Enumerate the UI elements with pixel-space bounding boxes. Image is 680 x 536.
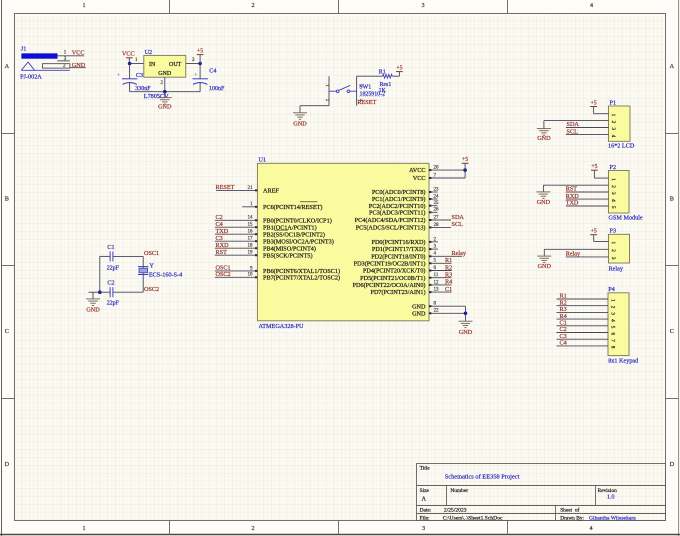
P4 pin 2 wire net R2 [557, 299, 609, 306]
svg-text:SDA: SDA [452, 214, 465, 221]
svg-text:8x1 Keypad: 8x1 Keypad [608, 357, 639, 364]
svg-text:+5: +5 [591, 100, 597, 106]
svg-text:P1: P1 [610, 99, 617, 106]
wire VCC pin up to AVCC node [464, 170, 466, 178]
U1 pin 5 (PD3 net R1) [354, 257, 453, 267]
svg-text:J1: J1 [21, 46, 27, 53]
power port +5 regulator [197, 54, 204, 56]
svg-text:3: 3 [610, 192, 616, 195]
U1 pin 11 (PD5 net R3) [360, 272, 452, 282]
svg-text:AVCC: AVCC [409, 167, 425, 174]
U1 pin 6 (PD4 net R2) [363, 264, 452, 274]
U1 pin 24 (PC1) [372, 194, 439, 203]
capacitor C3 [117, 73, 137, 85]
U1 pin 7 (VCC) [413, 173, 465, 182]
svg-text:A: A [5, 63, 10, 70]
P3 pin 3 wire Relay [566, 256, 609, 258]
U1 pin 9 (PB6) [215, 265, 340, 275]
svg-text:GSM Module: GSM Module [609, 215, 643, 222]
U1 pin 28 (PC5 net SCL) [356, 221, 463, 231]
svg-text:PJ-002A: PJ-002A [20, 73, 42, 80]
svg-text:PB5(SCK/PCINT5): PB5(SCK/PCINT5) [263, 252, 313, 259]
svg-text:17: 17 [248, 237, 254, 242]
U1 pin 15 (PB1) [215, 221, 317, 231]
svg-text:GND: GND [412, 303, 426, 310]
svg-text:16*2 LCD: 16*2 LCD [608, 143, 635, 150]
junction AVCC node [463, 168, 467, 172]
svg-text:VCC: VCC [72, 50, 85, 57]
svg-text:Relay: Relay [609, 266, 624, 273]
wire VCC to U2 IN [130, 63, 144, 65]
svg-text:B: B [670, 196, 674, 203]
P2 pin 4 wire RXD [566, 198, 609, 200]
ground symbol P2 [542, 185, 544, 192]
wire crystal right vertical [142, 256, 144, 292]
svg-text:Drawn By:: Drawn By: [560, 515, 584, 521]
svg-text:Size: Size [420, 488, 430, 494]
svg-text:6: 6 [610, 333, 616, 336]
svg-text:2: 2 [610, 306, 616, 309]
svg-text:PC4(ADC4/SDA/PCINT12): PC4(ADC4/SDA/PCINT12) [355, 217, 426, 224]
zone labels bottom [82, 525, 592, 532]
svg-text:PD6(PCINT22/OC0A/AIN0): PD6(PCINT22/OC0A/AIN0) [353, 282, 426, 289]
P1 pin 3 wire SDA [566, 127, 609, 129]
wire crystal left vertical [99, 256, 101, 292]
junction VCC node [128, 62, 132, 66]
P2 pin 1 wire [594, 177, 608, 179]
P4 pin 3 wire net R3 [557, 306, 609, 313]
svg-text:1: 1 [610, 242, 616, 245]
zone divider top [169, 0, 171, 14]
zone labels top [82, 2, 593, 9]
svg-text:16: 16 [248, 230, 254, 235]
P2 pin 5 wire TXD [566, 205, 609, 207]
capacitor C4 [193, 72, 208, 84]
P3 pin 2 wire [544, 248, 608, 250]
svg-text:4: 4 [590, 2, 593, 9]
svg-text:C3: C3 [216, 235, 223, 242]
svg-text:4: 4 [610, 199, 616, 202]
IC U1 body [257, 163, 429, 320]
svg-text:1K: 1K [379, 88, 387, 94]
connector J1 sleeve contact [21, 62, 34, 70]
U2 GND pin wire [164, 77, 166, 92]
svg-text:C: C [5, 328, 9, 335]
P4 pin 7 wire net C3 [557, 333, 609, 340]
connector P3 body [609, 234, 630, 263]
svg-text:Schematics of EE358 Project: Schematics of EE358 Project [445, 474, 520, 481]
junction GND node U1 [464, 312, 468, 316]
zone divider right [666, 133, 679, 135]
U1 pin name overline RESET [300, 201, 318, 203]
P1 pin numbers [610, 114, 616, 138]
svg-text:1.0: 1.0 [607, 494, 615, 500]
svg-text:C2: C2 [107, 279, 114, 286]
U1 pin 17 (PB3) [215, 235, 334, 245]
svg-text:28: 28 [434, 223, 440, 228]
ground symbol crystal [92, 292, 94, 299]
svg-text:GND: GND [293, 121, 307, 128]
svg-text:1: 1 [610, 114, 616, 117]
ground rail wire [130, 91, 201, 93]
svg-text:C4: C4 [560, 340, 567, 347]
junction ground rail [163, 90, 167, 94]
svg-text:PD2(PCINT18/INT0): PD2(PCINT18/INT0) [371, 253, 425, 260]
U1 pin 14 (PB0) [215, 214, 332, 224]
svg-text:RXD: RXD [216, 242, 230, 249]
ground symbol regulator [164, 92, 166, 98]
svg-text:+5: +5 [591, 164, 597, 170]
svg-text:PB1(OC1A/PCINT1): PB1(OC1A/PCINT1) [263, 224, 317, 231]
svg-text:22pF: 22pF [107, 300, 120, 306]
svg-text:2: 2 [610, 185, 616, 188]
svg-text:2: 2 [610, 121, 616, 124]
svg-text:+5: +5 [591, 229, 597, 235]
svg-text:PD3(PCINT19/OC2B/INT1): PD3(PCINT19/OC2B/INT1) [354, 260, 426, 267]
power port +5 at P2 [591, 169, 598, 171]
wire OSC2 bottom [100, 291, 110, 293]
connector J1 tip contact [22, 54, 58, 59]
wire C4 to rail [199, 83, 201, 92]
svg-text:2: 2 [251, 2, 254, 9]
switch SW1 left lead [328, 76, 330, 105]
svg-text:D: D [5, 461, 10, 468]
svg-text:C: C [670, 328, 674, 335]
svg-text:15: 15 [248, 223, 254, 228]
wire U2 OUT to +5 [186, 63, 200, 65]
svg-text:4: 4 [610, 319, 616, 322]
svg-text:+5: +5 [197, 48, 203, 54]
svg-text:24: 24 [434, 194, 440, 199]
U1 pin 25 (PC2) [369, 201, 439, 210]
outer border left [1, 0, 3, 536]
connector J1 pin 3 [57, 60, 70, 62]
svg-text:26: 26 [434, 208, 440, 213]
svg-text:3: 3 [610, 257, 616, 260]
svg-text:GND: GND [459, 329, 473, 336]
svg-text:PB7(PCINT7/XTAL2/TOSC2): PB7(PCINT7/XTAL2/TOSC2) [263, 274, 340, 281]
svg-text:8: 8 [610, 346, 616, 349]
P3 pin numbers [610, 242, 616, 260]
power port +5 at U1 [462, 162, 469, 164]
ground symbol P1 [543, 121, 545, 129]
svg-text:C:\Users\..\Sheet1.SchDoc: C:\Users\..\Sheet1.SchDoc [443, 515, 503, 521]
U1 pin name underline OC1A [276, 229, 289, 231]
zone divider bottom [169, 521, 171, 535]
svg-text:R1: R1 [379, 69, 386, 75]
svg-text:PD7(PCINT23/AIN1): PD7(PCINT23/AIN1) [371, 289, 426, 296]
svg-text:1: 1 [82, 525, 85, 532]
svg-text:RST: RST [216, 249, 228, 256]
U1 pin 26 (PC3) [369, 208, 439, 217]
switch SW1 contacts [329, 85, 357, 92]
capacitor C2 [110, 287, 113, 297]
svg-text:+5: +5 [396, 65, 402, 71]
svg-text:1: 1 [610, 299, 616, 302]
ground symbol P3 [543, 249, 545, 256]
P4 pin 5 wire net C1 [557, 320, 609, 327]
svg-text:PC5(ADC5/SCL/PCINT13): PC5(ADC5/SCL/PCINT13) [356, 225, 426, 232]
svg-text:RESET: RESET [357, 99, 376, 106]
outer border right [678, 0, 680, 536]
svg-text:2: 2 [610, 249, 616, 252]
U1 pin 12 (PD6 net R4) [353, 279, 453, 289]
svg-text:21: 21 [248, 186, 254, 191]
svg-text:SDA: SDA [567, 121, 580, 128]
svg-text:VCC: VCC [122, 50, 135, 57]
U1 pin 21 (AREF) [216, 184, 280, 194]
U1 pin 2 (PD0) [372, 237, 438, 246]
svg-text:25: 25 [434, 201, 440, 206]
crystal Y1 [138, 267, 148, 275]
zone labels left [5, 63, 10, 468]
U1 pin 8 (GND) [412, 302, 465, 311]
junction crystal gnd [98, 290, 102, 294]
U1 pin 13 (PD7 net C1) [371, 286, 453, 296]
svg-text:SCL: SCL [452, 221, 464, 228]
svg-text:Relay: Relay [452, 250, 467, 257]
P1 pin 2 wire [544, 120, 609, 122]
power port +5 at R1 [396, 71, 403, 73]
svg-text:IN: IN [149, 62, 156, 68]
P1 pin 1 wire [594, 113, 609, 115]
svg-text:3: 3 [421, 2, 424, 9]
svg-text:P3: P3 [610, 228, 617, 235]
svg-text:4: 4 [589, 525, 592, 532]
wire C3 to rail [129, 83, 131, 92]
svg-text:PC0(ADC0/PCINT8): PC0(ADC0/PCINT8) [372, 189, 426, 196]
wire GND pin 8 down [465, 306, 467, 313]
zone labels right [670, 63, 675, 468]
svg-text:AREF: AREF [263, 188, 279, 195]
svg-text:OSC1: OSC1 [144, 250, 159, 257]
svg-text:GND: GND [158, 71, 172, 77]
U1 pin 3 (PD1) [372, 245, 438, 254]
P4 pin 8 wire net C4 [557, 340, 609, 347]
zone divider left [2, 133, 15, 135]
svg-text:RST: RST [566, 186, 578, 193]
svg-text:7: 7 [610, 339, 616, 342]
svg-text:Sheet of: Sheet of [560, 507, 579, 514]
svg-text:PB4(MISO/PCINT4): PB4(MISO/PCINT4) [263, 245, 316, 252]
svg-text:13: 13 [434, 288, 440, 293]
svg-text:TXD: TXD [566, 200, 579, 207]
svg-text:D: D [670, 461, 675, 468]
svg-text:PD5(PCINT21/OC0B/T1): PD5(PCINT21/OC0B/T1) [360, 275, 425, 282]
svg-text:OUT: OUT [169, 62, 182, 68]
svg-text:Title: Title [420, 466, 431, 472]
svg-text:4: 4 [610, 135, 616, 138]
U1 pin 4 (PD2 net Relay) [371, 250, 467, 260]
U1 pin 16 (PB2) [215, 228, 325, 238]
svg-text:GND: GND [158, 103, 172, 110]
U1 pin 27 (PC4 net SDA) [355, 214, 465, 224]
svg-text:3: 3 [610, 128, 616, 131]
svg-text:22: 22 [434, 309, 440, 314]
svg-text:GND: GND [412, 310, 426, 317]
svg-text:Gihantha Wijesekara: Gihantha Wijesekara [589, 515, 636, 521]
svg-text:27: 27 [434, 215, 440, 220]
title block frame [417, 464, 666, 521]
svg-text:23: 23 [434, 187, 440, 192]
U1 pin 10 (PB7) [215, 271, 340, 281]
svg-text:2/25/2023: 2/25/2023 [444, 508, 467, 514]
ground symbol at SW1 [299, 106, 301, 113]
wire OSC1 top [100, 255, 110, 257]
P1 pin 4 wire SCL [566, 134, 609, 136]
wire switch to resistor [357, 75, 383, 77]
svg-text:GND: GND [72, 62, 86, 69]
capacitor C1 [110, 251, 113, 261]
svg-text:10: 10 [248, 273, 254, 278]
svg-text:PB2(SS/OC1B/PCINT2): PB2(SS/OC1B/PCINT2) [263, 231, 325, 238]
svg-text:PC6(PCINT14/RESET): PC6(PCINT14/RESET) [263, 204, 322, 211]
svg-text:14: 14 [248, 216, 254, 221]
svg-text:Revision: Revision [598, 488, 617, 494]
svg-text:SCL: SCL [567, 128, 579, 135]
svg-text:GND: GND [537, 199, 551, 206]
svg-text:TXD: TXD [216, 228, 229, 235]
wire switch to ground [300, 105, 329, 107]
resistor R1 [383, 74, 393, 78]
svg-text:U1: U1 [259, 157, 267, 164]
svg-text:5: 5 [610, 206, 616, 209]
P4 pin 1 wire net R1 [557, 293, 609, 300]
svg-text:5: 5 [610, 326, 616, 329]
svg-text:Number: Number [450, 488, 468, 494]
svg-text:OSC2: OSC2 [144, 286, 159, 293]
P3 pin 1 wire [594, 241, 609, 243]
voltage regulator U2 body [144, 55, 186, 77]
svg-text:PD4(PCINT20/XCK/T0): PD4(PCINT20/XCK/T0) [363, 268, 426, 275]
svg-text:P4: P4 [608, 286, 615, 293]
svg-text:C3: C3 [136, 72, 143, 79]
connector P4 body [608, 293, 629, 356]
svg-text:11: 11 [434, 273, 439, 278]
U1 pin 19 (PB5) [215, 249, 313, 259]
svg-text:File:: File: [420, 515, 430, 521]
switch SW1 pin numbers [325, 84, 364, 102]
svg-text:VCC: VCC [413, 175, 426, 182]
svg-text:2: 2 [251, 525, 254, 532]
svg-text:19: 19 [248, 251, 254, 256]
svg-text:R2: R2 [445, 264, 452, 271]
U1 pin 18 (PB4) [215, 242, 316, 252]
U1 pin 23 (PC0) [372, 187, 439, 196]
svg-text:R4: R4 [445, 279, 452, 286]
title block labels [420, 466, 617, 522]
svg-text:GND: GND [538, 263, 552, 270]
svg-text:PD0(PCINT16/RXD): PD0(PCINT16/RXD) [372, 239, 426, 246]
outer border bottom [0, 534, 680, 536]
svg-text:18: 18 [248, 244, 254, 249]
svg-text:3: 3 [422, 525, 425, 532]
P4 pin 6 wire net C2 [557, 326, 609, 333]
U1 pin 20 (AVCC) [409, 166, 465, 175]
svg-text:C4: C4 [209, 67, 216, 74]
svg-text:P2: P2 [610, 164, 617, 171]
wire resistor to +5 [392, 75, 399, 77]
svg-text:20: 20 [434, 166, 440, 171]
wire +5 down to C4 [199, 64, 201, 79]
svg-text:1: 1 [610, 178, 616, 181]
U1 pin 1 (PC6) [242, 202, 322, 211]
svg-text:C4: C4 [216, 221, 223, 228]
junction +5 node [198, 62, 202, 66]
svg-text:3: 3 [610, 312, 616, 315]
switch SW1 right lead [356, 76, 358, 105]
svg-text:A: A [670, 63, 675, 70]
svg-text:PC3(ADC3/PCINT11): PC3(ADC3/PCINT11) [369, 209, 426, 216]
svg-text:1: 1 [82, 2, 85, 9]
wire VCC down to C3 [129, 64, 131, 79]
svg-text:ATMEGA328-PU: ATMEGA328-PU [259, 323, 305, 330]
connector P2 body [609, 171, 630, 214]
connector P1 body [609, 106, 631, 141]
power port +5 at P1 [590, 106, 597, 108]
P2 pin numbers [610, 178, 616, 209]
svg-text:B: B [5, 196, 9, 203]
P2 pin 3 wire RST [566, 191, 609, 193]
svg-text:A: A [422, 496, 427, 503]
P4 pin numbers [610, 299, 616, 349]
svg-text:Relay: Relay [566, 251, 581, 258]
svg-text:22pF: 22pF [107, 265, 120, 271]
svg-text:U2: U2 [145, 49, 153, 56]
svg-text:SW1: SW1 [359, 84, 371, 90]
svg-text:GND: GND [86, 307, 100, 314]
svg-text:R3: R3 [445, 272, 452, 279]
connector J1 pin 1 [57, 55, 84, 57]
svg-text:C1: C1 [445, 286, 452, 293]
svg-text:OSC2: OSC2 [216, 271, 231, 278]
P2 pin 2 wire [543, 184, 608, 186]
svg-text:C1: C1 [107, 244, 114, 251]
svg-text:Date:: Date: [420, 508, 432, 514]
svg-text:ECS-160-S-4: ECS-160-S-4 [149, 272, 182, 279]
svg-text:+5: +5 [462, 157, 468, 163]
ground symbol U1 [465, 313, 467, 321]
power port +5 at P3 [590, 234, 597, 236]
svg-text:12: 12 [434, 280, 440, 285]
svg-text:R1: R1 [445, 257, 452, 264]
P4 pin 4 wire net R4 [557, 313, 609, 320]
svg-text:PB3(MOSI/OC2A/PCINT3): PB3(MOSI/OC2A/PCINT3) [263, 238, 334, 245]
svg-text:RESET: RESET [216, 184, 235, 191]
svg-text:PD1(PCINT17/TXD): PD1(PCINT17/TXD) [372, 246, 426, 253]
connector J1 sleeve pin rect [42, 64, 70, 68]
svg-text:GND: GND [537, 135, 551, 142]
svg-text:Y: Y [149, 262, 154, 269]
U1 pin 22 (GND) [412, 309, 465, 318]
wire to crystal ground [89, 291, 100, 293]
